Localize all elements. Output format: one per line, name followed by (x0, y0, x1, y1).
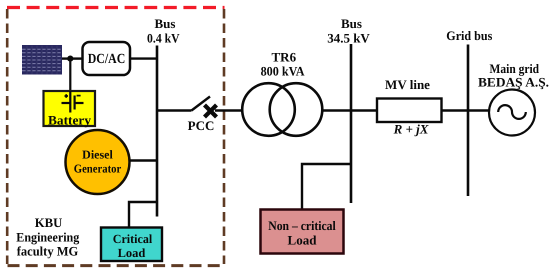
wire PCC to transformer (215, 109, 243, 111)
svg-text:Bus: Bus (341, 16, 362, 31)
battery B1 (44, 91, 96, 128)
diesel generator G1 (66, 130, 130, 194)
bus 34.5 kV (350, 44, 353, 203)
breaker X mark (205, 105, 217, 117)
wire junction down to battery (69, 59, 71, 91)
wire junction to DC/AC (70, 57, 82, 59)
svg-text:Generator: Generator (74, 162, 122, 176)
svg-text:Load: Load (288, 233, 318, 248)
wire generator to bus 0.4kV (130, 159, 158, 161)
wire bus to PCC switch (157, 109, 192, 111)
svg-text:BEDAŞ A.Ş.: BEDAŞ A.Ş. (478, 75, 549, 90)
converter DC/AC (83, 42, 131, 75)
svg-text:0.4 kV: 0.4 kV (147, 31, 180, 46)
impedance MV line box (377, 77, 442, 137)
wire bus to critical load (L-branch) (129, 202, 157, 228)
svg-text:faculty MG: faculty MG (17, 244, 79, 259)
grid bus (467, 45, 470, 197)
node junction dot (67, 56, 73, 62)
wire PV to junction (62, 57, 70, 59)
source main grid circle (489, 90, 535, 136)
solar panel PV (22, 45, 62, 75)
load non-critical (261, 210, 344, 254)
svg-text:MV line: MV line (385, 77, 430, 92)
svg-text:Battery: Battery (48, 113, 92, 128)
wire DC/AC to bus 0.4kV (130, 57, 157, 59)
svg-text:34.5 kV: 34.5 kV (327, 31, 370, 46)
svg-text:Load: Load (118, 246, 146, 260)
svg-text:Non – critical: Non – critical (268, 218, 336, 233)
wire bus 34.5kV to MV line (351, 109, 377, 111)
load critical (101, 228, 162, 262)
bus 0.4 kV (156, 46, 159, 217)
svg-text:KBU: KBU (35, 215, 63, 230)
wire transformer to bus 34.5kV (322, 109, 351, 111)
svg-text:Diesel: Diesel (82, 148, 113, 162)
svg-text:PCC: PCC (188, 118, 215, 133)
wire bus to non-critical load (L-branch) (302, 164, 351, 210)
svg-text:DC/AC: DC/AC (88, 52, 126, 67)
svg-text:Engineering: Engineering (16, 230, 79, 245)
svg-text:R + jX: R + jX (393, 122, 429, 137)
svg-text:Critical: Critical (113, 232, 153, 246)
svg-text:TR6: TR6 (272, 50, 297, 65)
wire MV line to grid bus (442, 109, 469, 111)
svg-text:Bus: Bus (155, 16, 176, 31)
svg-text:800 kVA: 800 kVA (261, 64, 306, 79)
transformer TR6 (242, 83, 322, 136)
label KBU Engineering faculty MG (16, 215, 79, 259)
microgrid boundary dashed box (7, 8, 225, 266)
switch PCC blade (192, 97, 211, 111)
wire grid bus to source (468, 109, 489, 111)
svg-text:Grid bus: Grid bus (446, 28, 492, 43)
